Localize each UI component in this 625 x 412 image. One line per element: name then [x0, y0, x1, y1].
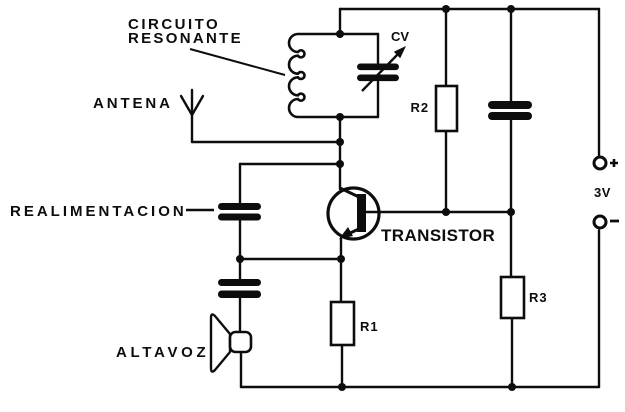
node R2 bottom base line: [442, 208, 450, 216]
svg-text:R2: R2: [411, 100, 430, 115]
capacitor C3 plate top (speaker coupling): [218, 279, 261, 286]
wire R2 bottom: [445, 131, 447, 212]
transistor Q1: [328, 188, 379, 239]
svg-text:TRANSISTOR: TRANSISTOR: [381, 226, 495, 245]
battery negative terminal: [594, 216, 606, 228]
svg-text:R1: R1: [360, 319, 379, 334]
wire battery positive lead: [598, 9, 600, 155]
wire tank right side below CV: [377, 82, 379, 117]
node emitter junction: [337, 255, 345, 263]
node antenna junction: [336, 138, 344, 146]
inductor L1 (tank coil): [289, 34, 305, 117]
node base line right: [507, 208, 515, 216]
capacitor CV plate bottom: [357, 75, 399, 82]
wire bypass cap bottom: [510, 120, 512, 212]
wire emitter down: [340, 239, 342, 302]
wire tank right side above CV: [377, 34, 379, 63]
wire tank bottom to transistor collector: [339, 117, 341, 189]
svg-text:REALIMENTACION: REALIMENTACION: [10, 203, 187, 220]
capacitor C1 plate bottom (bypass): [488, 112, 532, 120]
svg-text:3V: 3V: [594, 185, 611, 200]
svg-text:RESONANTE: RESONANTE: [128, 30, 243, 47]
wire bypass cap top: [510, 9, 512, 101]
node bypass cap top rail: [507, 5, 515, 13]
wire tank circuit top side: [298, 33, 378, 35]
resistor R1: [331, 302, 354, 345]
node tank bottom: [336, 113, 344, 121]
node tank top: [336, 30, 344, 38]
wire feedback branch upper: [239, 164, 241, 203]
leader line to coil: [190, 49, 285, 75]
wire speaker to bottom rail: [240, 352, 242, 387]
wire feedback horizontal top: [240, 163, 340, 165]
node R3 bottom rail: [508, 383, 516, 391]
svg-text:CV: CV: [391, 29, 409, 44]
leader dash REALIMENTACION: [186, 209, 214, 211]
wire feedback cap2 to speaker: [239, 298, 241, 333]
node R1 bottom rail: [338, 383, 346, 391]
antenna: [181, 90, 203, 115]
wire R3 top: [510, 212, 512, 277]
resistor R2: [436, 86, 457, 131]
capacitor CV plate top: [357, 64, 399, 71]
svg-text:ANTENA: ANTENA: [93, 95, 173, 112]
wire R3 bottom: [511, 318, 513, 387]
wire R2 top: [445, 9, 447, 86]
capacitor CV arrow: [362, 46, 406, 91]
wire bottom rail: [241, 386, 599, 388]
wire feedback mid junction to emitter: [240, 258, 341, 260]
wire R1 to bottom rail: [341, 345, 343, 387]
wire antenna horizontal: [192, 141, 340, 143]
label -: [610, 220, 619, 223]
wire tank circuit bottom side: [298, 116, 378, 118]
wire feedback between capacitors: [239, 221, 241, 279]
wire battery negative lead: [598, 231, 600, 388]
wire transistor base lead: [366, 211, 511, 213]
capacitor C2 plate bottom (feedback): [218, 214, 261, 221]
capacitor C1 plate top (bypass): [488, 101, 532, 109]
node R2 top rail: [442, 5, 450, 13]
speaker (altavoz): [211, 314, 251, 371]
node feedback mid: [236, 255, 244, 263]
wire top rail: [340, 8, 599, 10]
wire antenna mast: [191, 115, 193, 142]
svg-text:R3: R3: [529, 290, 548, 305]
capacitor C2 plate top (feedback): [218, 203, 261, 210]
resistor R3: [501, 277, 524, 318]
label +: [610, 159, 618, 167]
battery positive terminal: [594, 157, 606, 169]
wire top rail to tank top: [339, 9, 341, 34]
capacitor C3 plate bottom (speaker coupling): [218, 291, 261, 299]
node feedback junction: [336, 160, 344, 168]
svg-text:ALTAVOZ: ALTAVOZ: [116, 344, 209, 361]
